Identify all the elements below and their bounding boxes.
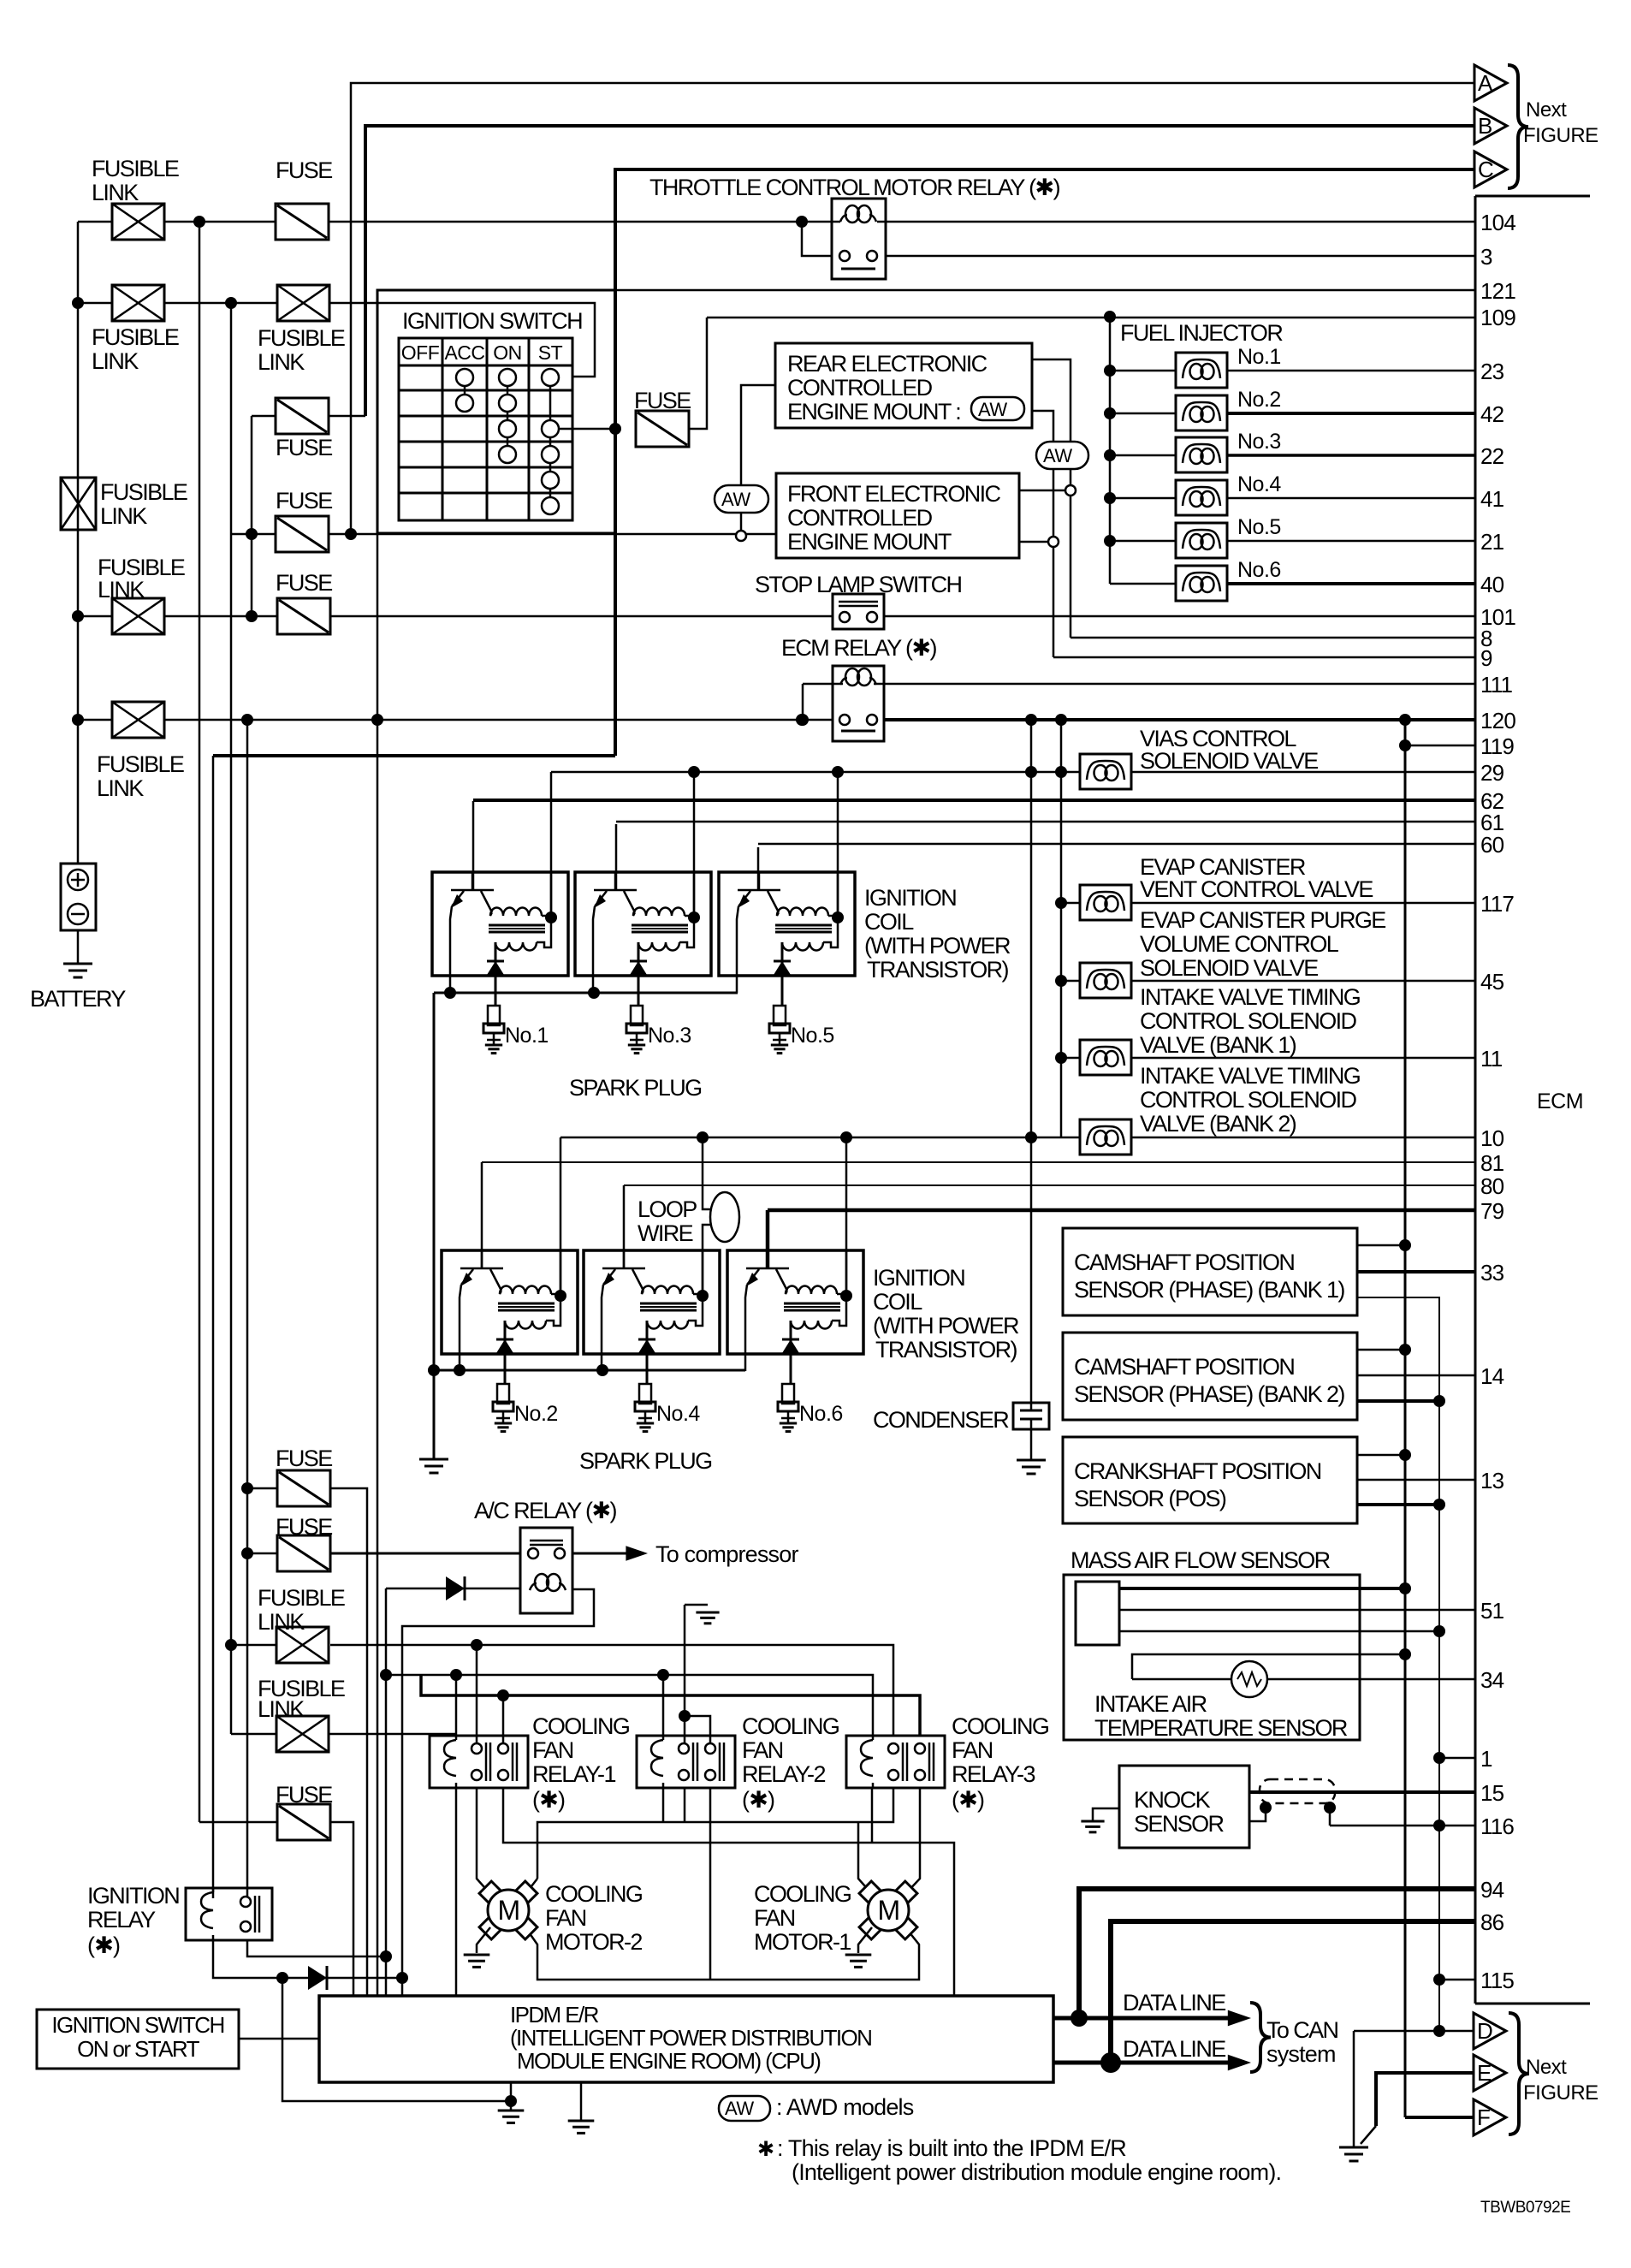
IPDM grounds <box>510 2082 513 2101</box>
svg-text:A: A <box>1478 70 1493 96</box>
wire row2 into ignition switch ST <box>329 303 595 377</box>
svg-text:FAN: FAN <box>532 1737 573 1763</box>
junction dot row1 <box>193 216 205 228</box>
wire y624 fuse row3 <box>231 533 276 536</box>
wire 61 line <box>615 824 618 891</box>
main coil ground <box>419 1458 448 1461</box>
knock sensor output wire pin15 <box>1249 1790 1475 1794</box>
wire D line <box>1354 2030 1474 2033</box>
loop wire supply vertical box2 <box>703 1137 711 1209</box>
cam bank1 wires <box>1357 1244 1405 1247</box>
ignition coil box3 bank2 <box>727 1250 863 1354</box>
svg-text:ECM RELAY (✱): ECM RELAY (✱) <box>781 635 936 661</box>
relay2 contact feed from ground <box>685 1604 708 1606</box>
wire 120 line y841 <box>78 719 112 721</box>
AW oval inside rear mount label <box>971 397 1024 420</box>
fusible link row2-right <box>277 285 329 321</box>
svg-text:TBWB0792E: TBWB0792E <box>1480 2199 1570 2217</box>
wire shield to pin116 <box>1330 1825 1475 1827</box>
svg-text:CONDENSER: CONDENSER <box>873 1407 1009 1433</box>
svg-text:LINK: LINK <box>100 503 147 529</box>
svg-text:LINK: LINK <box>97 775 144 801</box>
wire 79 line <box>766 1210 770 1269</box>
svg-text:SENSOR (PHASE) (BANK 2): SENSOR (PHASE) (BANK 2) <box>1074 1381 1344 1407</box>
fuel injector No.2 <box>1104 407 1116 419</box>
svg-text:No.1: No.1 <box>1237 345 1281 369</box>
svg-text:A/C RELAY (✱): A/C RELAY (✱) <box>474 1498 616 1523</box>
svg-text:LINK: LINK <box>92 180 139 205</box>
bank1 coil supply verticals <box>550 772 553 916</box>
wire fuse B to AC relay <box>330 1553 520 1555</box>
svg-text:CAMSHAFT POSITION: CAMSHAFT POSITION <box>1074 1250 1294 1275</box>
wire 119 branch x1641 <box>1404 720 1407 2117</box>
svg-text:115: 115 <box>1480 1968 1514 1993</box>
intake air temperature sensor element <box>1132 1654 1405 1679</box>
wire fuse to IPDM <box>330 1822 353 1996</box>
svg-text:FRONT ELECTRONIC: FRONT ELECTRONIC <box>787 481 1001 507</box>
knock shield grounds <box>1265 1803 1267 1808</box>
wire fuse A to IPDM <box>330 1488 367 1996</box>
svg-text:No.5: No.5 <box>1237 515 1281 539</box>
svg-text:45: 45 <box>1480 969 1504 994</box>
fuse B y1815 <box>247 1553 277 1555</box>
svg-text:42: 42 <box>1480 401 1504 427</box>
relay1 coil to IPDM <box>455 1788 458 1996</box>
svg-text:: AWD models: : AWD models <box>776 2094 914 2120</box>
svg-text:B: B <box>1478 113 1492 139</box>
svg-text:MASS AIR FLOW SENSOR: MASS AIR FLOW SENSOR <box>1071 1547 1331 1573</box>
relay1 contact1 to motor2 <box>477 1788 490 1894</box>
svg-text:LINK: LINK <box>258 1609 305 1635</box>
svg-text:9: 9 <box>1480 645 1492 671</box>
wire ignition switch to IPDM <box>239 2038 319 2040</box>
wire relay contact to pin3 <box>886 255 1475 258</box>
fusible link on relay feed line y1922 <box>231 1644 276 1647</box>
svg-text:121: 121 <box>1480 278 1515 304</box>
svg-text:IPDM E/R: IPDM E/R <box>510 2002 599 2028</box>
relay feed line y1957 <box>386 1675 873 1736</box>
wire y720 row4 <box>78 615 112 618</box>
connector triangle A <box>1474 65 1507 101</box>
svg-text:ENGINE MOUNT :: ENGINE MOUNT : <box>787 399 960 425</box>
relay feed line y1922 <box>330 1645 893 1736</box>
connector triangle D <box>1474 2013 1506 2049</box>
svg-text:FUSE: FUSE <box>276 157 332 183</box>
fusible link row2-left <box>112 285 164 321</box>
ignition coil box2 bank1 <box>575 872 711 976</box>
svg-text:THROTTLE CONTROL MOTOR RELAY (: THROTTLE CONTROL MOTOR RELAY (✱) <box>649 175 1060 200</box>
thick wire y883 from C-line bottom <box>213 754 615 757</box>
svg-text:DATA LINE: DATA LINE <box>1123 2036 1225 2062</box>
wire fuse to 109 line <box>689 318 707 429</box>
svg-text:To compressor: To compressor <box>655 1541 798 1567</box>
svg-text:WIRE: WIRE <box>638 1220 693 1246</box>
spark plug No.2 <box>497 1384 509 1404</box>
MAF wires <box>1119 1587 1405 1590</box>
wire 81 line <box>481 1162 483 1269</box>
vertical x1240 solenoid feed bus <box>1060 720 1063 1137</box>
svg-text:ON or START: ON or START <box>77 2036 200 2062</box>
svg-text:FUSIBLE: FUSIBLE <box>258 1585 345 1611</box>
relay contact feed verticals <box>476 1645 478 1743</box>
svg-text:No.4: No.4 <box>1237 472 1281 496</box>
svg-text:22: 22 <box>1480 443 1504 469</box>
svg-text:23: 23 <box>1480 359 1504 384</box>
wire x330 to IPDM ground <box>282 1978 511 2101</box>
svg-text:41: 41 <box>1480 486 1504 512</box>
FRONT ELECTRONIC CONTROLLED ENGINE MOUNT box <box>776 473 1019 558</box>
svg-text:IGNITION: IGNITION <box>864 885 956 911</box>
svg-text:94: 94 <box>1480 1877 1504 1903</box>
fuse row1 <box>276 204 329 240</box>
fuse A y1739 <box>247 1487 277 1490</box>
svg-text:COOLING: COOLING <box>952 1713 1048 1739</box>
svg-text:No.6: No.6 <box>799 1402 843 1426</box>
svg-text:CONTROLLED: CONTROLLED <box>787 505 933 531</box>
svg-text:No.3: No.3 <box>648 1024 691 1048</box>
svg-text:MOTOR-2: MOTOR-2 <box>545 1929 642 1955</box>
wire 80 line <box>623 1185 626 1269</box>
wire 86 line <box>1111 1921 1475 2063</box>
svg-text:104: 104 <box>1480 210 1515 235</box>
wire y2129 motor2 to relay3 contact1 <box>537 1788 893 1879</box>
svg-text:SOLENOID VALVE: SOLENOID VALVE <box>1140 955 1318 981</box>
wire 60 line <box>757 847 760 891</box>
svg-text:FUSE: FUSE <box>276 488 332 514</box>
svg-text:FUSE: FUSE <box>276 1782 332 1808</box>
AC relay coil feed diode <box>386 1588 520 1590</box>
svg-text:SPARK PLUG: SPARK PLUG <box>579 1448 712 1474</box>
sensor ground bus stubs <box>1439 1757 1475 1760</box>
wire ECM relay coil to pin111 <box>884 683 1475 686</box>
wire 119 stub <box>1405 745 1475 747</box>
camshaft position sensor bank1 box <box>1063 1228 1357 1315</box>
fuse chain vertical x294 <box>251 416 253 616</box>
ECM connector rail <box>1474 196 1477 2004</box>
svg-text:FAN: FAN <box>545 1905 586 1931</box>
svg-text:34: 34 <box>1480 1667 1504 1693</box>
fuel injector No.6 <box>1110 583 1176 585</box>
svg-text:21: 21 <box>1480 529 1504 555</box>
spark plug No.1 <box>488 1006 500 1025</box>
svg-text:E: E <box>1477 2060 1492 2086</box>
svg-text:ENGINE MOUNT: ENGINE MOUNT <box>787 529 952 555</box>
svg-text:81: 81 <box>1480 1150 1504 1176</box>
camshaft position sensor bank2 box <box>1063 1333 1357 1420</box>
svg-text:MODULE ENGINE ROOM) (CPU): MODULE ENGINE ROOM) (CPU) <box>517 2048 821 2074</box>
svg-text:CONTROLLED: CONTROLLED <box>787 375 933 401</box>
connector triangle F <box>1474 2099 1506 2135</box>
svg-text:109: 109 <box>1480 305 1515 330</box>
svg-text:IGNITION: IGNITION <box>87 1883 179 1909</box>
svg-text:No.5: No.5 <box>791 1024 834 1048</box>
svg-text:F: F <box>1477 2105 1490 2130</box>
svg-text:(✱): (✱) <box>742 1787 774 1813</box>
svg-text:D: D <box>1477 2018 1492 2044</box>
svg-text:M: M <box>877 1895 899 1926</box>
intake valve timing control solenoid valve bank1 <box>1061 1057 1080 1060</box>
svg-text:SENSOR (POS): SENSOR (POS) <box>1074 1486 1226 1511</box>
fusible link row1 <box>112 204 164 240</box>
svg-text:SENSOR: SENSOR <box>1134 1811 1225 1837</box>
svg-text:CAMSHAFT POSITION: CAMSHAFT POSITION <box>1074 1354 1294 1380</box>
svg-text:No.6: No.6 <box>1237 558 1281 582</box>
svg-text:FIGURE: FIGURE <box>1523 2081 1598 2105</box>
ground bus vertical to bank2 <box>433 993 436 1459</box>
REAR ELECTRONIC CONTROLLED ENGINE MOUNT box <box>775 343 1032 428</box>
svg-text:VALVE (BANK 1): VALVE (BANK 1) <box>1140 1032 1296 1058</box>
svg-text:(Intelligent power distributio: (Intelligent power distribution module e… <box>792 2159 1281 2185</box>
AC relay coil return <box>402 1589 594 1996</box>
motor1 ground <box>858 1927 872 1953</box>
svg-text:No.1: No.1 <box>505 1024 549 1048</box>
cooling fan motor-2 <box>513 1881 537 1905</box>
svg-text:FUSIBLE: FUSIBLE <box>100 479 187 505</box>
ignition coil box3 bank1 <box>719 872 855 976</box>
svg-text:VENT CONTROL VALVE: VENT CONTROL VALVE <box>1140 876 1373 902</box>
wire 62 line <box>472 801 475 891</box>
fuse feeding line B (y486) <box>252 415 276 418</box>
svg-text:80: 80 <box>1480 1173 1504 1199</box>
svg-text:M: M <box>497 1895 519 1926</box>
mass air flow sensor box <box>1064 1575 1360 1740</box>
svg-text:10: 10 <box>1480 1125 1504 1151</box>
svg-text:Next: Next <box>1526 2056 1567 2079</box>
svg-text:RELAY-1: RELAY-1 <box>532 1761 615 1787</box>
svg-text:11: 11 <box>1480 1046 1503 1072</box>
svg-text:KNOCK: KNOCK <box>1134 1787 1211 1813</box>
svg-text:86: 86 <box>1480 1909 1504 1935</box>
cam bank2 wires <box>1357 1349 1405 1351</box>
cooling fan relay-3 <box>846 1736 945 1788</box>
spark plug No.4 <box>639 1384 651 1404</box>
bank2 ground bus <box>434 1369 745 1372</box>
svg-text:(✱): (✱) <box>532 1787 565 1813</box>
svg-text:FUSE: FUSE <box>276 570 332 596</box>
svg-text:BATTERY: BATTERY <box>30 986 126 1012</box>
svg-text:LINK: LINK <box>258 1696 305 1722</box>
svg-text:FUEL INJECTOR: FUEL INJECTOR <box>1120 320 1283 346</box>
spark plug No.6 <box>782 1384 794 1404</box>
wire 29 line <box>551 771 1080 774</box>
condenser <box>1013 1403 1049 1429</box>
wire rear mount lower to node9 <box>1032 411 1053 537</box>
wire 121 line y339 <box>615 289 1475 292</box>
vertical x1205 from 120 line to condenser <box>1030 720 1033 1403</box>
svg-text:IGNITION SWITCH: IGNITION SWITCH <box>51 2012 223 2038</box>
KNOCK SENSOR box <box>1119 1766 1249 1848</box>
crank wires <box>1357 1454 1405 1457</box>
svg-text:116: 116 <box>1480 1814 1514 1839</box>
svg-text:15: 15 <box>1480 1780 1504 1806</box>
svg-text:FUSIBLE: FUSIBLE <box>92 156 179 181</box>
fusible link y720 <box>112 598 164 634</box>
svg-text:60: 60 <box>1480 832 1504 858</box>
svg-text:LINK: LINK <box>92 348 139 374</box>
svg-text:COIL: COIL <box>864 909 914 935</box>
ignition coil box2 bank2 <box>584 1250 720 1354</box>
fuse y720 <box>277 598 330 634</box>
svg-text:SPARK PLUG: SPARK PLUG <box>569 1075 702 1101</box>
svg-text:CONTROL SOLENOID: CONTROL SOLENOID <box>1140 1008 1357 1034</box>
svg-text:FUSE: FUSE <box>276 1514 332 1540</box>
battery ground <box>63 963 92 965</box>
svg-text:OFF: OFF <box>401 341 440 364</box>
wire y2153 relay1 contact2 to relay3 coil to IPDM <box>503 1788 954 1996</box>
vertical x249 down to ignition relay coil <box>212 756 215 1898</box>
svg-text:VALVE (BANK 2): VALVE (BANK 2) <box>1140 1111 1296 1137</box>
wire front mount right upper <box>1019 490 1065 492</box>
fusible link on feed line y2026 <box>231 1733 276 1736</box>
svg-text:79: 79 <box>1480 1198 1504 1224</box>
svg-text:(✱): (✱) <box>952 1787 984 1813</box>
svg-text:33: 33 <box>1480 1260 1504 1285</box>
battery positive feed wire row1 y261 <box>78 221 112 223</box>
wire stop lamp to pin101 <box>884 615 1475 618</box>
IPDM E/R box <box>319 1996 1053 2082</box>
svg-text:3: 3 <box>1480 244 1492 270</box>
svg-text:117: 117 <box>1480 891 1514 917</box>
relay2 coil return <box>662 1788 665 1822</box>
svg-text:COIL: COIL <box>873 1289 922 1315</box>
svg-text:INTAKE VALVE TIMING: INTAKE VALVE TIMING <box>1140 1063 1360 1089</box>
wire 94 line <box>1079 1889 1475 2018</box>
junction dots y720 <box>72 610 84 622</box>
svg-text:SOLENOID VALVE: SOLENOID VALVE <box>1140 748 1318 774</box>
wire line C (y198) <box>615 169 1474 756</box>
svg-text:: This relay is built into the: : This relay is built into the IPDM E/R <box>777 2135 1126 2161</box>
MAF inner connector <box>1076 1582 1119 1645</box>
svg-text:IGNITION SWITCH: IGNITION SWITCH <box>402 308 582 334</box>
svg-text:(WITH POWER: (WITH POWER <box>873 1313 1019 1339</box>
svg-text:FUSIBLE: FUSIBLE <box>97 751 184 777</box>
svg-text:No.2: No.2 <box>1237 388 1281 412</box>
D line ground <box>1353 2031 1355 2142</box>
ignition coil box1 bank1 <box>432 872 568 976</box>
svg-text:FUSIBLE: FUSIBLE <box>92 324 179 350</box>
junction dots y841 <box>72 714 84 726</box>
knock shield dashed <box>1260 1779 1335 1803</box>
relay feed line y1981 <box>421 1675 920 1736</box>
ignition switch ST row3 output to fuse <box>559 428 615 430</box>
svg-text:FUSE: FUSE <box>634 388 691 413</box>
connector triangle E <box>1474 2055 1506 2091</box>
svg-text:COOLING: COOLING <box>545 1881 642 1907</box>
connector triangle C <box>1474 151 1507 187</box>
vertical fusible link <box>61 478 96 530</box>
battery <box>61 864 96 930</box>
svg-text:51: 51 <box>1480 1598 1504 1624</box>
svg-text:No.2: No.2 <box>514 1402 558 1426</box>
svg-text:TRANSISTOR): TRANSISTOR) <box>867 957 1009 983</box>
brace to CAN <box>1250 2003 1271 2072</box>
svg-text:FUSE: FUSE <box>276 435 332 460</box>
svg-text:INTAKE AIR: INTAKE AIR <box>1094 1691 1207 1717</box>
wire line A (y97) <box>351 83 1474 534</box>
svg-text:CONTROL SOLENOID: CONTROL SOLENOID <box>1140 1087 1357 1113</box>
svg-text:40: 40 <box>1480 572 1504 597</box>
cooling fan relay-2 <box>637 1736 735 1788</box>
svg-text:Next: Next <box>1526 98 1567 122</box>
fuse bottom y2129 <box>199 1821 277 1824</box>
wire E line <box>1376 2073 1474 2126</box>
svg-text:LINK: LINK <box>258 349 305 375</box>
svg-text:IGNITION: IGNITION <box>873 1265 964 1291</box>
fuse after ignition switch <box>636 411 689 447</box>
ignition coil box1 bank2 <box>442 1250 578 1354</box>
wire rear mount to node8 <box>1032 359 1071 486</box>
svg-text:TRANSISTOR): TRANSISTOR) <box>875 1337 1017 1363</box>
wire y624 to front mount <box>377 533 776 536</box>
AW branch to front mount wire <box>741 385 775 485</box>
svg-text:AW: AW <box>1043 445 1072 466</box>
svg-text:COOLING: COOLING <box>754 1881 851 1907</box>
svg-text:111: 111 <box>1480 672 1512 698</box>
wire F line <box>1405 2116 1474 2119</box>
svg-text:INTAKE VALVE TIMING: INTAKE VALVE TIMING <box>1140 984 1360 1010</box>
wire 109 line y371 <box>707 317 1475 319</box>
relay3 contact2 to motor1 <box>905 1788 920 1894</box>
AW oval on mount wires <box>1036 442 1088 469</box>
junction dots y624 <box>246 528 258 540</box>
DATA LINE upper <box>1053 2016 1238 2021</box>
vertical x451 <box>385 1588 388 1996</box>
svg-text:SENSOR (PHASE) (BANK 1): SENSOR (PHASE) (BANK 1) <box>1074 1277 1344 1303</box>
wire front mount right lower <box>1019 541 1048 543</box>
svg-text:COOLING: COOLING <box>532 1713 629 1739</box>
svg-text:FUSIBLE: FUSIBLE <box>258 325 345 351</box>
AC relay <box>520 1528 572 1613</box>
svg-text:119: 119 <box>1480 733 1514 759</box>
svg-text:ON: ON <box>493 341 522 364</box>
fuel injector supply bus x1297 <box>1109 317 1112 584</box>
svg-text:RELAY: RELAY <box>87 1907 156 1933</box>
motor1 top-left feed <box>858 1822 872 1894</box>
svg-text:To CAN: To CAN <box>1266 2017 1338 2043</box>
AW AWD models note <box>719 2096 770 2121</box>
IGNITION SWITCH ON or START box <box>37 2010 239 2069</box>
vertical x233 down to bottom fuse <box>199 222 201 1822</box>
ignition switch outer box <box>377 290 615 533</box>
svg-text:120: 120 <box>1480 708 1515 733</box>
condenser ground <box>1017 1459 1046 1462</box>
svg-text:1: 1 <box>1480 1746 1492 1772</box>
fusible link y841 <box>112 702 164 738</box>
svg-text:LINK: LINK <box>98 577 145 603</box>
EVAP canister purge volume control solenoid valve <box>1061 980 1080 983</box>
svg-text:COOLING: COOLING <box>742 1713 839 1739</box>
connector triangle B <box>1474 108 1507 144</box>
svg-text:MOTOR-1: MOTOR-1 <box>754 1929 851 1955</box>
crankshaft position sensor box <box>1063 1437 1357 1523</box>
svg-text:FUSE: FUSE <box>276 1446 332 1471</box>
brace next figure top <box>1508 65 1528 188</box>
DATA LINE lower <box>1053 2061 1238 2065</box>
wire row2 y354 <box>78 302 112 305</box>
vertical x441 ignition box left edge down to IPDM <box>377 534 379 720</box>
svg-text:13: 13 <box>1480 1468 1504 1493</box>
fuse row3 y624 <box>276 516 329 552</box>
VIAS control solenoid valve <box>1080 754 1131 789</box>
svg-text:(INTELLIGENT POWER DISTRIBUTIO: (INTELLIGENT POWER DISTRIBUTION <box>510 2025 871 2051</box>
svg-text:(WITH POWER: (WITH POWER <box>864 933 1011 959</box>
wire ECM relay contact to pin120 <box>884 718 1475 721</box>
svg-text:RELAY-2: RELAY-2 <box>742 1761 825 1787</box>
svg-text:FAN: FAN <box>952 1737 993 1763</box>
svg-text:TEMPERATURE SENSOR: TEMPERATURE SENSOR <box>1094 1715 1348 1741</box>
left vertical battery bus x91 <box>77 222 80 864</box>
svg-text:No.3: No.3 <box>1237 430 1281 454</box>
